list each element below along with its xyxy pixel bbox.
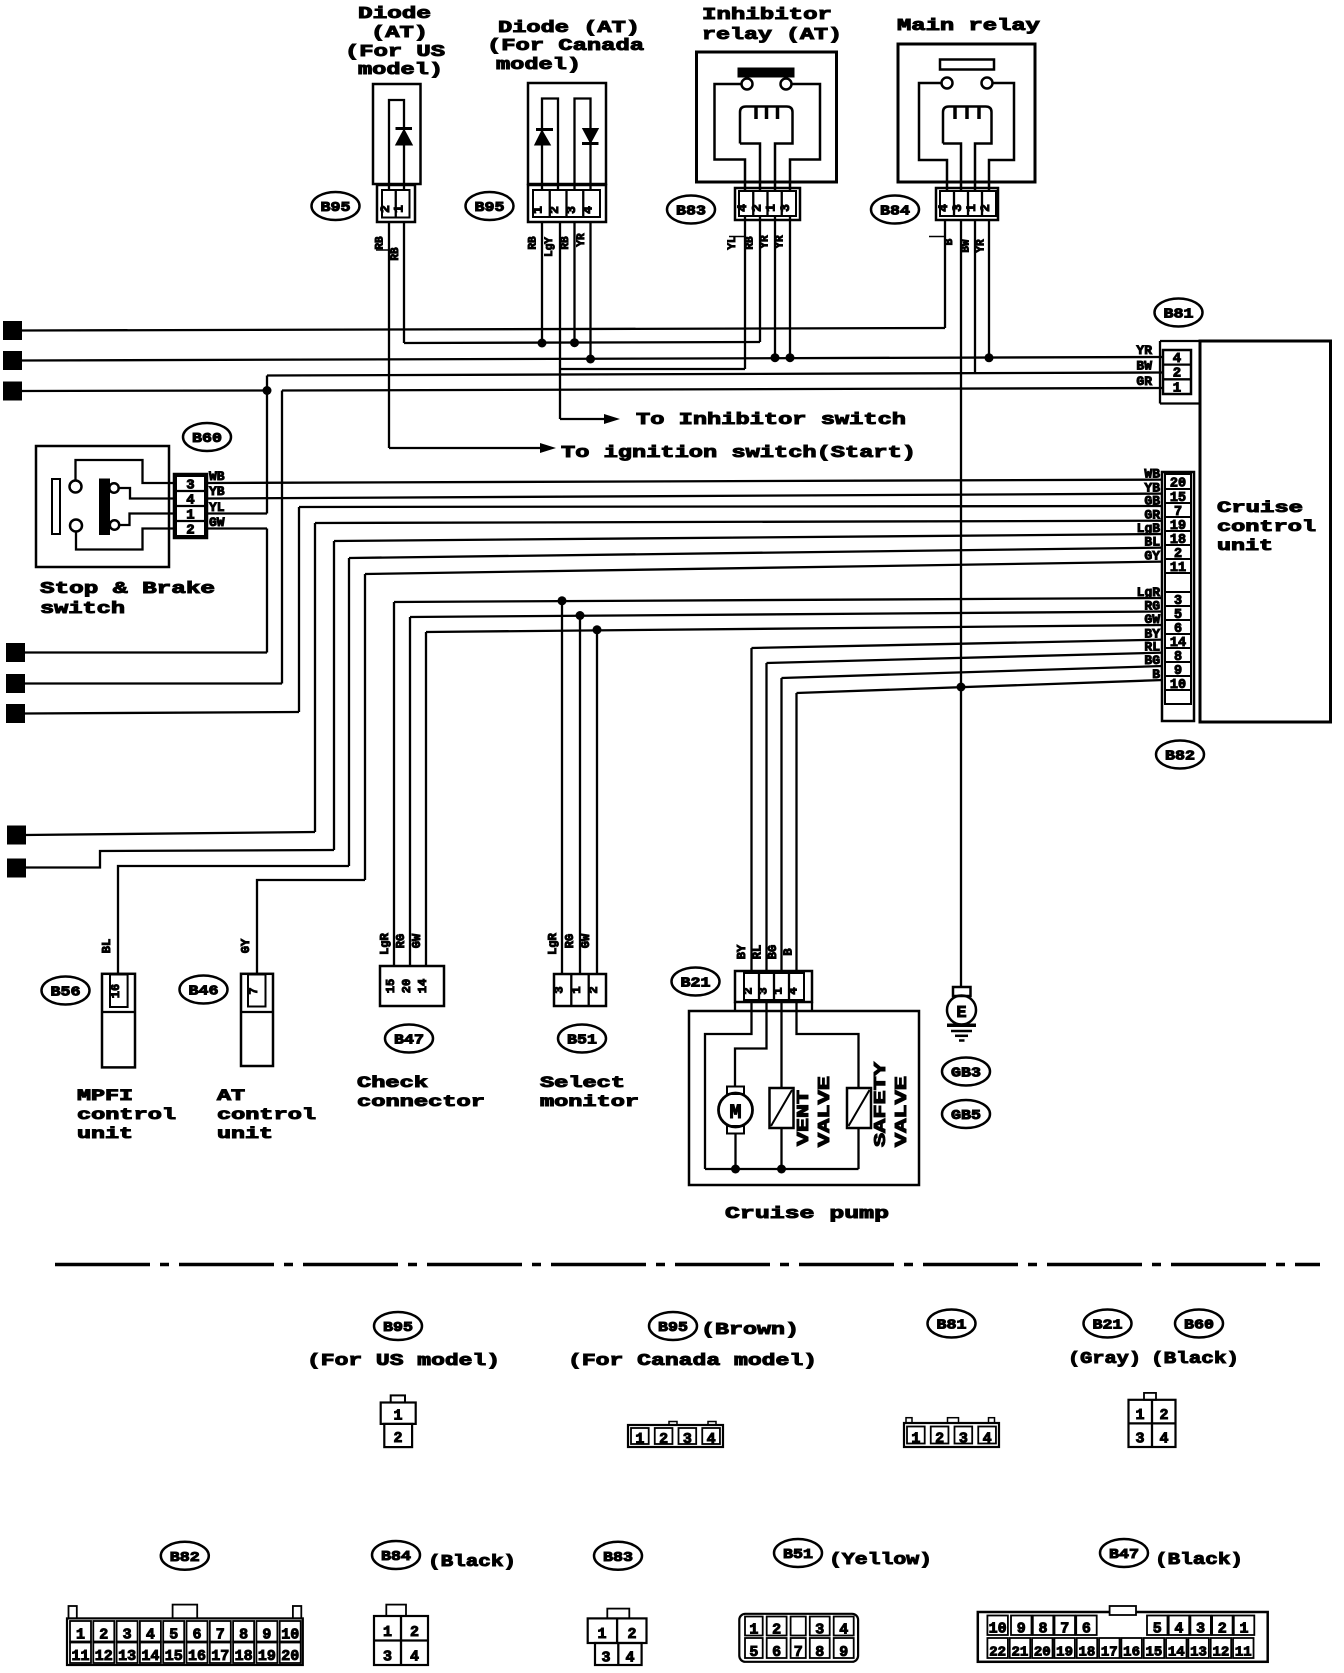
connector B46 oval label [180, 976, 228, 1004]
svg-text:AT: AT [217, 1087, 246, 1105]
svg-text:2: 2 [1218, 1621, 1227, 1638]
svg-text:12: 12 [95, 1648, 113, 1665]
svg-text:3: 3 [9, 385, 17, 400]
ground name GB5 oval [942, 1100, 990, 1128]
svg-text:To Inhibitor switch: To Inhibitor switch [636, 411, 906, 430]
svg-text:2: 2 [99, 1627, 108, 1644]
pump wire pin1 to vent valve [780, 1002, 782, 1088]
svg-text:4: 4 [1173, 351, 1181, 367]
svg-text:2: 2 [547, 206, 562, 214]
svg-text:B: B [782, 948, 796, 955]
diode D-CA1 loop wire [542, 99, 558, 192]
svg-text:(For US model): (For US model) [307, 1352, 500, 1371]
junction B83 pin4 YR on YR rail [789, 216, 791, 358]
svg-text:8: 8 [1038, 1621, 1047, 1638]
footer connector B21 oval [1084, 1310, 1132, 1338]
svg-text:B: B [1152, 667, 1160, 682]
junction select monitor RG wire [579, 616, 581, 975]
main relay contact prongs [953, 107, 957, 119]
riser x349 BL line down to MPFI branch [348, 558, 350, 866]
footer connector B95 Canada pin diagram [628, 1425, 723, 1447]
svg-text:3: 3 [959, 1431, 968, 1448]
svg-text:model): model) [496, 56, 581, 75]
svg-text:3: 3 [815, 1622, 824, 1639]
svg-text:YR: YR [760, 235, 772, 249]
svg-text:4: 4 [12, 647, 20, 662]
wire US diode pin1 down to RB rail [403, 222, 405, 343]
wire B83 pin1 YL cross-link [744, 216, 746, 369]
junction B84 pin2 YR on YR rail [988, 220, 990, 358]
svg-text:(AT): (AT) [371, 24, 428, 43]
svg-text:2: 2 [1159, 1407, 1168, 1424]
node tag 6 (circuit 6) [7, 705, 24, 722]
safety valve to ground rail wire [857, 1128, 859, 1169]
svg-text:22: 22 [989, 1645, 1006, 1661]
svg-text:3: 3 [123, 1627, 132, 1644]
connector B83 oval label [667, 196, 715, 224]
svg-text:4: 4 [839, 1622, 848, 1639]
connector B82 oval label [1156, 741, 1204, 769]
inhibitor relay coil bar [738, 68, 794, 77]
junction Canada diode pin3 on RB rail [573, 222, 575, 343]
check connector housing B47 [380, 966, 444, 1006]
diode (AT) for US model - component box [373, 84, 421, 184]
wire circuit-5 from tag to riser x282 [24, 682, 282, 684]
svg-text:YL: YL [727, 236, 739, 250]
inhibitor relay contact fork [740, 107, 793, 192]
svg-text:switch: switch [40, 600, 125, 619]
svg-text:BL: BL [100, 939, 114, 953]
node tag 8 (circuit 8) [8, 860, 25, 877]
ground symbol hatching [947, 1024, 976, 1028]
svg-text:2: 2 [186, 523, 194, 539]
svg-text:LgY: LgY [544, 237, 556, 257]
svg-text:16: 16 [1123, 1645, 1140, 1661]
svg-text:2: 2 [627, 1626, 636, 1643]
svg-text:10: 10 [281, 1627, 299, 1644]
svg-text:RB: RB [745, 236, 757, 250]
svg-text:connector: connector [357, 1093, 485, 1111]
main relay coil right wire to pin 2 [989, 83, 1014, 191]
svg-text:2: 2 [978, 204, 993, 212]
svg-text:GW: GW [410, 933, 424, 948]
stop & brake switch plunger [52, 479, 60, 534]
svg-text:1: 1 [76, 1627, 85, 1644]
svg-text:6: 6 [772, 1644, 781, 1661]
footer connector B21/B60 pin diagram [1144, 1393, 1156, 1400]
svg-text:1: 1 [570, 986, 584, 993]
wire LgR line to cruise unit pin3 [394, 598, 1163, 602]
diode (AT) for Canada model - component box [528, 83, 606, 184]
svg-text:14: 14 [141, 1648, 159, 1665]
svg-text:(Black): (Black) [428, 1553, 516, 1572]
svg-text:14: 14 [416, 979, 430, 993]
vent valve symbol [770, 1088, 794, 1128]
footer connector B81 pin diagram [904, 1423, 999, 1447]
svg-text:1: 1 [764, 204, 779, 212]
svg-text:2: 2 [772, 1622, 781, 1639]
footer connector B82 pin diagram [67, 1618, 303, 1665]
main relay coil terminal circles [942, 78, 953, 89]
svg-text:9: 9 [1017, 1621, 1026, 1638]
wire circuit-2 YR rail [21, 357, 1163, 361]
node tag 3 (circuit 3) [4, 383, 21, 400]
svg-text:6: 6 [192, 1627, 201, 1644]
svg-text:3: 3 [383, 1649, 392, 1666]
junction dot circuit-3 / YL riser [263, 386, 272, 395]
svg-text:7: 7 [1060, 1621, 1069, 1638]
connector B83 housing [735, 188, 800, 220]
motor to ground rail wire [734, 1134, 736, 1170]
wire B line to cruise unit pin10 [797, 680, 1164, 693]
footer connector B84 pin diagram [386, 1605, 406, 1616]
wire B84 pin3 B: long ground drop to E [960, 220, 962, 986]
svg-text:17: 17 [1101, 1645, 1118, 1661]
pump wire pin3 to motor [735, 1002, 767, 1087]
node tag 5 (circuit 5) [7, 675, 24, 692]
wire circuit-8 from tag to LgB riser (with jog) [25, 850, 334, 868]
connector B47 oval label [385, 1025, 433, 1053]
connector B51 oval label [558, 1025, 606, 1053]
svg-text:1: 1 [635, 1431, 644, 1448]
node tag 4 (circuit 4) [7, 644, 24, 661]
wire circuit-1 rail (B from main relay pin4) [21, 328, 945, 331]
svg-text:B84: B84 [381, 1549, 411, 1565]
connector B56 oval label [42, 977, 90, 1005]
svg-text:20: 20 [400, 979, 414, 993]
RB rail joining diodes and inhibitor relay [404, 342, 760, 343]
riser x299 GB line down to circuit-6 [298, 507, 300, 712]
svg-text:15: 15 [165, 1648, 183, 1665]
main relay coil left wire to pin 4 [919, 83, 947, 191]
main relay coil element (open rect) [940, 60, 994, 70]
svg-text:(For Canada: (For Canada [487, 37, 644, 56]
svg-text:YL: YL [209, 500, 225, 515]
svg-text:B95: B95 [321, 200, 351, 216]
svg-text:4: 4 [1159, 1431, 1168, 1448]
svg-text:unit: unit [217, 1125, 273, 1143]
svg-text:relay (AT): relay (AT) [702, 26, 842, 45]
svg-text:3: 3 [553, 986, 567, 993]
svg-text:GW: GW [209, 515, 225, 530]
svg-text:VENT: VENT [795, 1090, 814, 1146]
switch wire right-bottom to pin 1 [119, 514, 174, 526]
svg-text:3: 3 [1196, 1621, 1205, 1638]
wire circuit-4 from tag to GW riser [24, 651, 267, 653]
svg-text:2: 2 [587, 986, 601, 993]
pump internal ground rail [705, 1168, 859, 1170]
svg-text:B95: B95 [475, 200, 505, 216]
vent valve to ground rail wire [780, 1128, 782, 1169]
svg-text:3: 3 [757, 987, 771, 994]
svg-text:Cruise: Cruise [1217, 499, 1303, 517]
svg-text:B60: B60 [192, 431, 222, 447]
svg-text:4: 4 [410, 1649, 419, 1666]
node tag 7 (circuit 7) [8, 827, 25, 844]
wire BL line to cruise unit pin2 [349, 548, 1163, 558]
wire from main relay pin4 down to circuit-1 rail [944, 220, 946, 328]
connector B84 housing [936, 188, 998, 220]
svg-text:B47: B47 [394, 1033, 424, 1049]
svg-text:4: 4 [581, 206, 596, 214]
svg-text:MPFI: MPFI [77, 1087, 133, 1105]
svg-text:8: 8 [13, 862, 21, 877]
svg-text:RL: RL [751, 945, 765, 959]
riser x267: BW line to YL pin of stop&brake switch [266, 376, 268, 514]
wire GW from stop&brake pin2 to riser x267 [207, 527, 267, 529]
connector B82 outer frame [1162, 472, 1194, 721]
svg-text:1: 1 [597, 1626, 606, 1643]
svg-text:WB: WB [1144, 467, 1160, 482]
wire to inhibitor switch with arrow [560, 418, 605, 420]
svg-text:B21: B21 [1093, 1318, 1123, 1334]
wire YB stop&brake pin4 to cruise unit pin15 [207, 494, 1163, 499]
svg-text:2: 2 [9, 355, 17, 370]
riser x410 RG down to check connector [409, 617, 411, 966]
svg-text:BG: BG [1144, 653, 1160, 668]
main relay contact fork [943, 107, 992, 192]
switch wire right-top to pin 4 [119, 488, 174, 499]
connector B95 (Canada) housing [528, 185, 606, 222]
svg-text:18: 18 [1079, 1645, 1096, 1661]
svg-text:4: 4 [787, 987, 801, 994]
riser x426 GW down to check connector [425, 632, 427, 966]
connector B60 oval label [183, 423, 231, 451]
svg-text:VALVE: VALVE [893, 1076, 912, 1147]
svg-text:B46: B46 [189, 984, 219, 1000]
svg-text:GY: GY [1144, 549, 1160, 564]
svg-text:B83: B83 [676, 204, 706, 220]
svg-text:(Black): (Black) [1151, 1350, 1239, 1369]
svg-text:6: 6 [12, 708, 20, 723]
wire B83 pin2 RB down to RB rail [759, 216, 761, 342]
diode D-CA2 symbol (down) [584, 129, 598, 142]
svg-text:9: 9 [262, 1627, 271, 1644]
svg-text:1: 1 [964, 204, 979, 212]
wire MPFI branch BL [118, 866, 349, 973]
footer connector B47 pin diagram [978, 1612, 1268, 1662]
riser RL down to cruise pump pin3 [765, 663, 767, 971]
footer connector B95 Canada oval [649, 1312, 697, 1340]
dashed separator line [55, 1263, 1320, 1267]
svg-text:1: 1 [383, 1624, 392, 1641]
svg-text:1: 1 [749, 1622, 758, 1639]
svg-text:(For Canada model): (For Canada model) [568, 1352, 817, 1371]
cruise pump component box [689, 1011, 919, 1185]
footer connector B83 pin diagram [607, 1609, 629, 1619]
connector B95 (US) housing [377, 185, 415, 222]
inhibitor relay contact prongs [754, 107, 758, 119]
svg-text:1: 1 [392, 205, 407, 213]
svg-text:2: 2 [393, 1430, 402, 1447]
wire GB line to cruise unit pin7 [299, 506, 1163, 507]
svg-text:VALVE: VALVE [816, 1076, 835, 1147]
svg-text:1: 1 [1173, 380, 1181, 396]
svg-text:2: 2 [659, 1431, 668, 1448]
svg-text:RB: RB [560, 236, 572, 250]
svg-text:1: 1 [911, 1431, 920, 1448]
junction B ground wire on circuit-10 B line [957, 683, 966, 692]
main relay component box [898, 44, 1035, 182]
wire to ignition switch (Start) with arrow [389, 447, 541, 449]
svg-text:(Brown): (Brown) [701, 1321, 799, 1340]
wire B84 pin1 BW down to BW line [974, 220, 976, 373]
svg-text:RB: RB [390, 247, 402, 261]
riser x365 GY line down to AT branch [364, 574, 366, 880]
svg-text:4: 4 [146, 1627, 155, 1644]
wire Canada diode pin2 down to inhibitor switch line [559, 222, 561, 419]
svg-text:unit: unit [1217, 537, 1273, 555]
footer connector B81 oval [928, 1310, 976, 1338]
wire BW line from node x267 to cruise unit B81 pin2 [267, 373, 1163, 376]
riser x334 LgB line down to circuit-8 [333, 541, 335, 850]
svg-text:YR: YR [1136, 343, 1152, 358]
pump wire pin2 to ground rail [705, 1002, 752, 1169]
connector B81 pin block [1163, 350, 1191, 394]
svg-text:20: 20 [281, 1648, 299, 1665]
svg-text:RB: RB [528, 236, 540, 250]
motor M of cruise pump [727, 1087, 744, 1095]
svg-text:6: 6 [1082, 1621, 1091, 1638]
diode D-CA2 loop wire [575, 99, 591, 192]
svg-text:YR: YR [976, 239, 988, 253]
svg-text:SAFETY: SAFETY [872, 1061, 891, 1147]
svg-text:9: 9 [839, 1644, 848, 1661]
svg-text:(For US: (For US [345, 43, 445, 62]
svg-text:1: 1 [186, 508, 194, 524]
svg-text:B81: B81 [1164, 307, 1194, 323]
svg-text:4: 4 [1174, 1621, 1183, 1638]
riser BY down to cruise pump pin2 [750, 648, 752, 971]
footer connector B47 oval [1100, 1539, 1148, 1567]
svg-text:GB5: GB5 [951, 1108, 981, 1124]
junction select monitor GW wire [596, 630, 598, 974]
svg-text:Main relay: Main relay [897, 17, 1040, 36]
svg-text:1: 1 [530, 206, 545, 214]
wire LgB line to cruise unit pin18 [334, 534, 1163, 541]
svg-text:(Gray): (Gray) [1068, 1350, 1141, 1369]
svg-text:YR: YR [775, 235, 787, 249]
svg-text:B81: B81 [937, 1318, 967, 1334]
wire BY line to cruise unit pin14 [752, 640, 1164, 648]
riser B down to cruise pump pin4 [795, 693, 797, 971]
svg-text:1: 1 [772, 987, 786, 994]
svg-text:B82: B82 [170, 1550, 200, 1566]
wire BG line to cruise unit pin9 [782, 666, 1164, 678]
svg-text:GW: GW [1144, 612, 1160, 627]
svg-text:4: 4 [983, 1431, 992, 1448]
wire circuit-3 to node at x267 [21, 389, 267, 392]
footer connector B51 pin diagram [739, 1614, 858, 1662]
svg-text:GW: GW [579, 933, 593, 948]
svg-text:5: 5 [12, 678, 20, 693]
wire US diode pin2 to ignition switch line [388, 222, 390, 448]
svg-text:B83: B83 [603, 1550, 633, 1566]
svg-text:model): model) [358, 61, 443, 80]
wire WB stop&brake pin3 to cruise unit pin20 [207, 480, 1163, 483]
wire YL from stop&brake pin1 to riser x267 [207, 512, 267, 514]
svg-text:14: 14 [1168, 1645, 1185, 1661]
footer connector B83 oval [594, 1542, 642, 1570]
svg-text:2: 2 [1173, 366, 1181, 382]
diode D-CA1 symbol (up) [536, 128, 553, 131]
node tag 1 (circuit 1) [4, 322, 21, 339]
svg-text:E: E [956, 1004, 966, 1023]
svg-text:M: M [729, 1102, 741, 1125]
wire RG line to cruise unit pin5 [410, 612, 1163, 618]
svg-text:YB: YB [209, 484, 225, 499]
svg-text:21: 21 [1012, 1645, 1029, 1661]
svg-text:5: 5 [1153, 1621, 1162, 1638]
svg-text:10: 10 [989, 1621, 1007, 1638]
svg-text:unit: unit [77, 1125, 133, 1143]
svg-text:2: 2 [749, 204, 764, 212]
svg-text:5: 5 [749, 1644, 758, 1661]
svg-text:GY: GY [239, 938, 253, 953]
svg-text:3: 3 [601, 1650, 610, 1667]
junction B83 pin3 YR on YR rail [774, 216, 776, 358]
connector B95 (US) oval label [312, 192, 360, 220]
svg-text:GR: GR [1136, 374, 1152, 389]
svg-text:BY: BY [735, 944, 749, 959]
connector B84 oval label [871, 196, 919, 224]
svg-text:B51: B51 [567, 1033, 597, 1049]
svg-text:2: 2 [742, 987, 756, 994]
svg-text:Cruise pump: Cruise pump [725, 1205, 889, 1224]
svg-text:B95: B95 [383, 1320, 413, 1336]
riser x315 GR19 line down to circuit-7 [314, 523, 316, 832]
wire GR line to cruise unit pin19 [315, 521, 1163, 523]
svg-text:B47: B47 [1109, 1547, 1139, 1563]
diode D-US symbol [396, 127, 413, 130]
svg-text:4: 4 [625, 1650, 634, 1667]
svg-text:BW: BW [1136, 359, 1152, 374]
junction Canada diode pin4 on YR rail [589, 222, 591, 359]
connector B21 oval label [672, 968, 720, 996]
wire RL line to cruise unit pin8 [767, 653, 1164, 663]
svg-text:17: 17 [211, 1648, 229, 1665]
svg-text:7: 7 [216, 1627, 225, 1644]
stop & brake switch right contacts [109, 483, 118, 492]
svg-text:15: 15 [1146, 1645, 1163, 1661]
safety valve symbol [847, 1088, 871, 1128]
MPFI control unit connector [102, 974, 135, 1068]
svg-text:13: 13 [118, 1648, 136, 1665]
svg-text:GB: GB [1144, 494, 1160, 509]
svg-text:BL: BL [1144, 535, 1160, 550]
svg-text:7: 7 [247, 987, 261, 994]
svg-text:3: 3 [1135, 1431, 1144, 1448]
connector B81 bracket [1160, 340, 1200, 342]
svg-text:To ignition switch(Start): To ignition switch(Start) [561, 444, 916, 463]
svg-text:2: 2 [410, 1624, 419, 1641]
svg-text:11: 11 [1235, 1645, 1252, 1661]
svg-text:3: 3 [683, 1431, 692, 1448]
footer connector B82 oval [161, 1542, 209, 1570]
svg-text:19: 19 [258, 1648, 276, 1665]
connector B95 (Canada) oval label [466, 192, 514, 220]
svg-text:Inhibitor: Inhibitor [702, 6, 832, 25]
wire GY line to cruise unit pin11 [365, 562, 1163, 574]
ground name GB3 oval [942, 1058, 990, 1086]
svg-text:BW: BW [961, 239, 973, 253]
inhibitor relay coil left wire to pin 1 [715, 84, 746, 191]
svg-text:(Black): (Black) [1155, 1551, 1243, 1570]
svg-text:11: 11 [71, 1648, 89, 1665]
svg-text:12: 12 [1212, 1645, 1229, 1661]
wire circuit-6 from tag to GB riser [24, 712, 299, 714]
footer connector B51 oval [774, 1539, 822, 1567]
